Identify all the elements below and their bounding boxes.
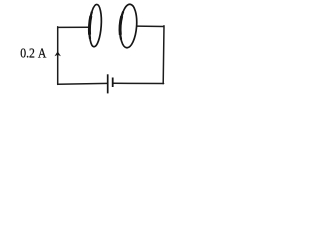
- coil loop L2 (right ellipse): [119, 4, 139, 49]
- battery B1: long plate: [107, 74, 109, 93]
- coil loop L1 (left ellipse): [88, 4, 102, 47]
- wire: bottom left segment: [58, 82, 108, 85]
- wire: right vertical: [162, 26, 165, 84]
- arrow (current direction up): [55, 51, 61, 56]
- battery B1: short plate: [112, 78, 114, 88]
- wire: bottom right segment: [113, 82, 164, 84]
- wire: top-left horizontal: [58, 26, 90, 28]
- wire: top-right stub: [137, 25, 164, 27]
- svg-text:0.2 A: 0.2 A: [20, 46, 46, 61]
- wire: left vertical: [57, 27, 59, 85]
